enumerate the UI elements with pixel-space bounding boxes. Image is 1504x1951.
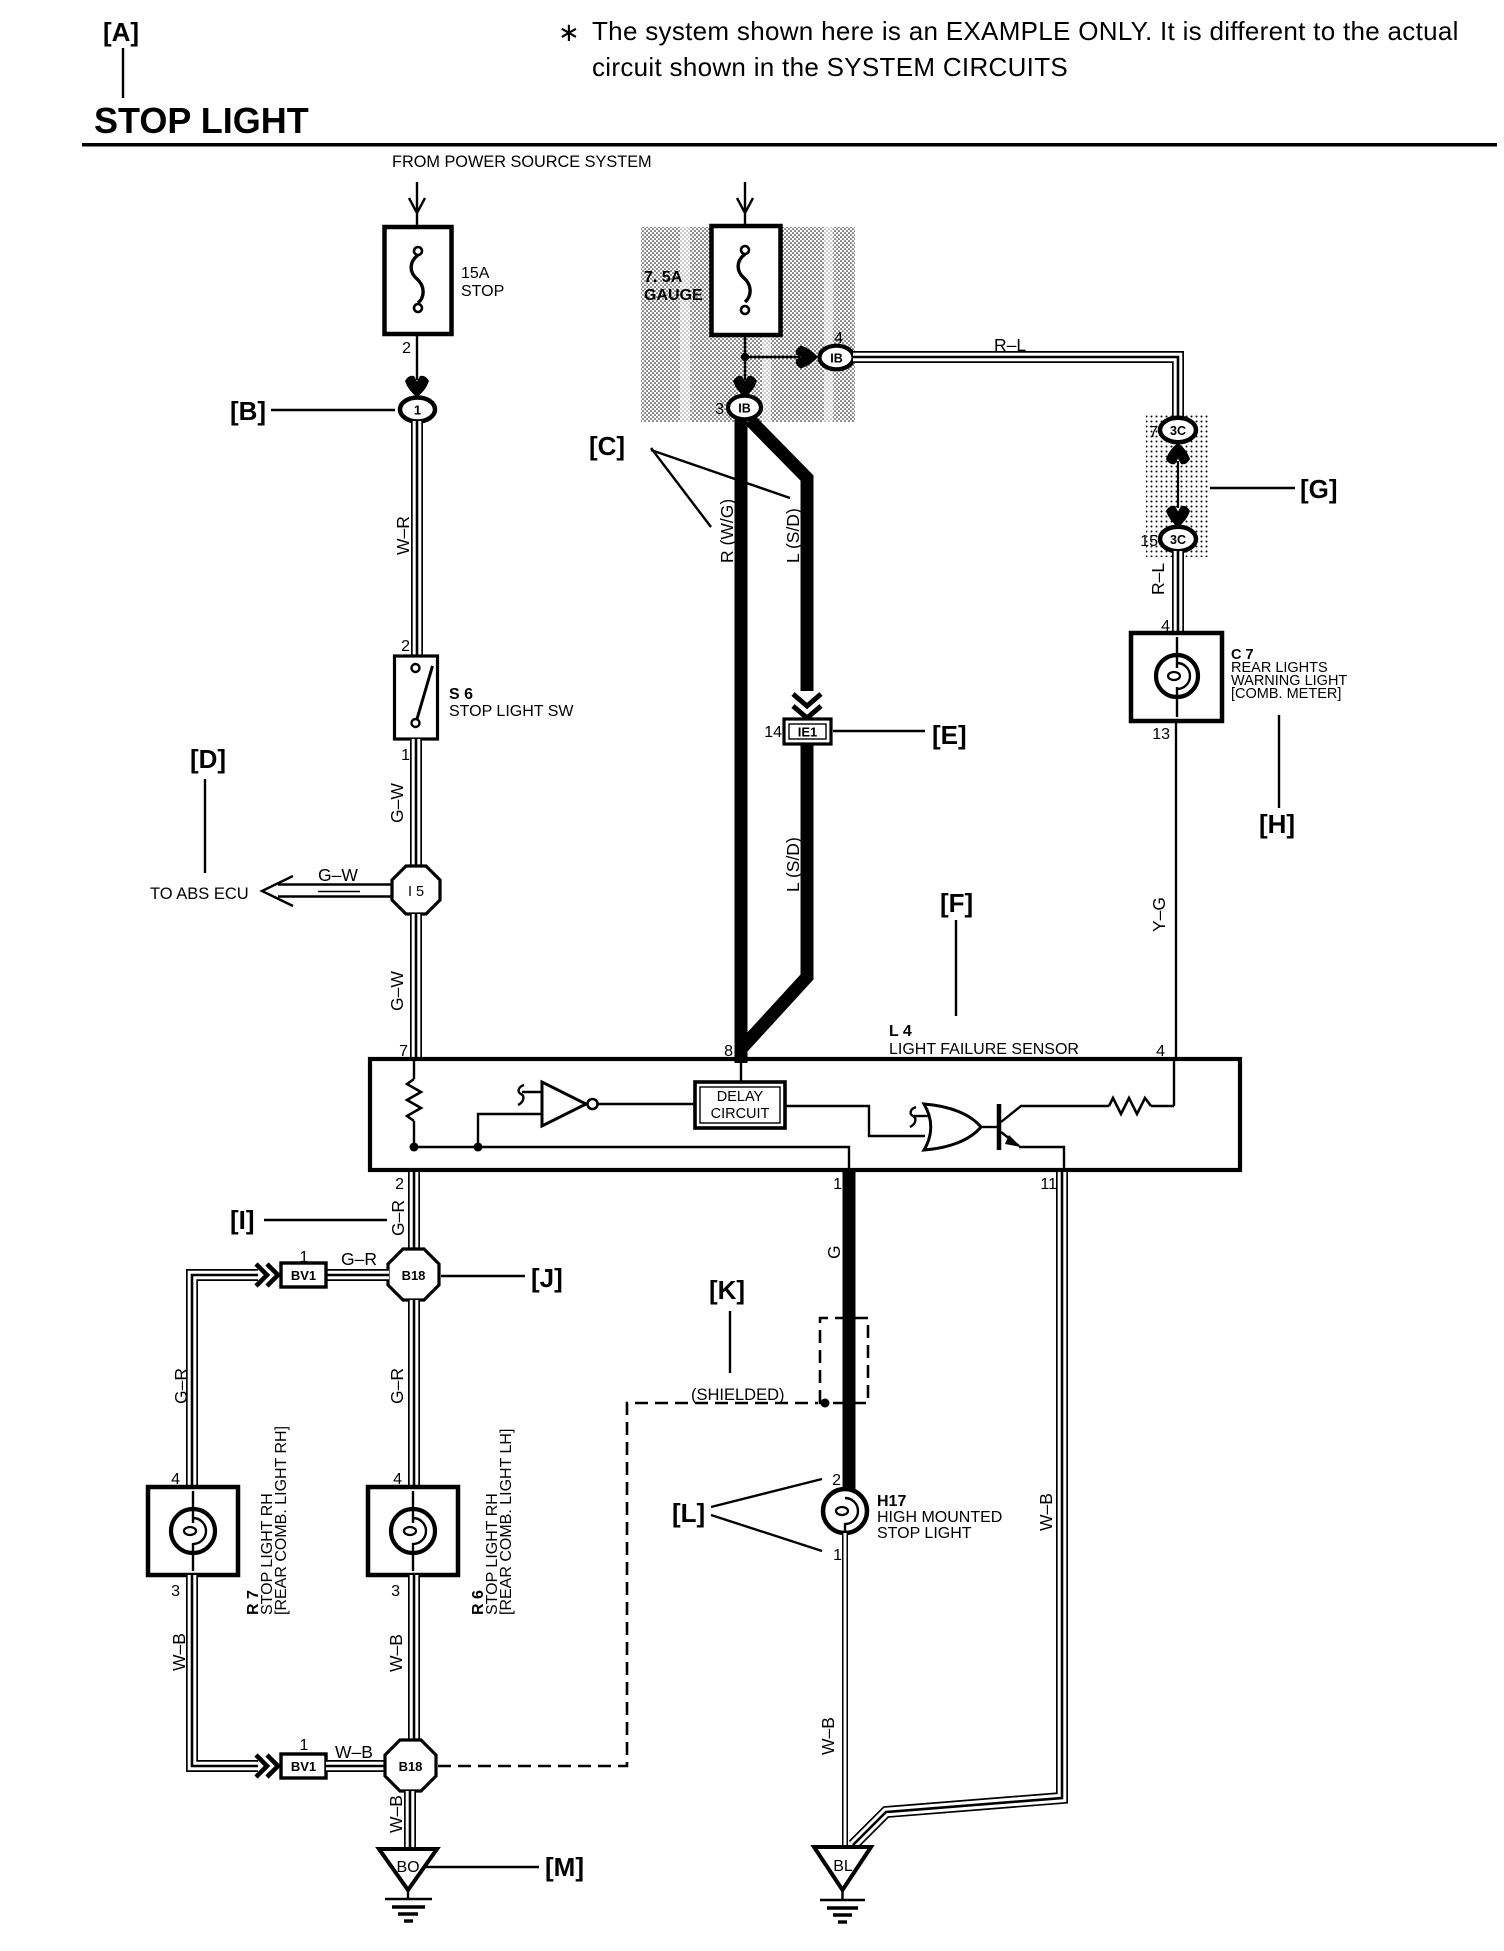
dashed shield wire from B18 lower xyxy=(438,1403,818,1766)
wire from power source to fuse 15A with arrow xyxy=(409,182,425,227)
svg-text:G–R: G–R xyxy=(171,1368,191,1404)
svg-text:[G]: [G] xyxy=(1300,474,1338,504)
label K xyxy=(709,1275,745,1373)
connector oval 3C upper xyxy=(1160,418,1196,442)
OR gate xyxy=(924,1104,981,1150)
svg-text:1: 1 xyxy=(401,747,410,764)
svg-text:R (W/G): R (W/G) xyxy=(717,499,737,563)
svg-text:L (S/D): L (S/D) xyxy=(783,837,803,892)
sensor L4 box xyxy=(370,1059,1240,1170)
svg-text:7. 5A: 7. 5A xyxy=(644,269,683,286)
svg-text:[I]: [I] xyxy=(230,1205,255,1235)
svg-text:∗: ∗ xyxy=(558,17,580,47)
fuse 15A value label xyxy=(461,265,504,300)
svg-text:[C]: [C] xyxy=(589,431,625,461)
lamp C7 name label xyxy=(1231,647,1347,702)
svg-text:[M]: [M] xyxy=(545,1852,584,1882)
svg-text:15: 15 xyxy=(1140,533,1158,550)
bottom rail wire to pin 1 xyxy=(414,1147,849,1168)
label D xyxy=(190,744,226,873)
label B xyxy=(230,396,395,426)
filled arrow down toward 3C lower xyxy=(1166,506,1190,527)
svg-text:DELAY: DELAY xyxy=(717,1089,764,1105)
junction connector B18 lower octagon xyxy=(385,1740,436,1791)
svg-text:CIRCUIT: CIRCUIT xyxy=(711,1106,770,1122)
connector oval 1 xyxy=(400,398,435,422)
svg-text:FROM POWER SOURCE SYSTEM: FROM POWER SOURCE SYSTEM xyxy=(392,153,652,171)
svg-text:circuit shown in the SYSTEM CI: circuit shown in the SYSTEM CIRCUITS xyxy=(592,52,1068,82)
ground BO xyxy=(379,1849,437,1921)
svg-text:GAUGE: GAUGE xyxy=(644,287,703,304)
sensor L4 name label xyxy=(889,1023,1079,1058)
thick wire G sensor pin1 to H17 xyxy=(843,1170,856,1490)
resistor R inside sensor xyxy=(407,1061,421,1147)
svg-text:1: 1 xyxy=(414,403,421,418)
svg-text:L (S/D): L (S/D) xyxy=(783,508,803,563)
thick wire L (S/D) upper xyxy=(750,420,807,691)
connector oval IB lower xyxy=(728,396,761,420)
label E xyxy=(833,720,967,750)
wire W-B lamp R7 to BV1 lower xyxy=(192,1575,258,1766)
wire G-W switch to junction I5 xyxy=(410,739,422,868)
svg-text:BV1: BV1 xyxy=(291,1268,316,1283)
label C xyxy=(589,431,790,527)
svg-text:B18: B18 xyxy=(399,1759,423,1774)
svg-text:1: 1 xyxy=(300,1737,309,1754)
svg-text:STOP LIGHT: STOP LIGHT xyxy=(877,1525,972,1542)
lamp R7 name label rotated xyxy=(245,1426,290,1615)
svg-text:[L]: [L] xyxy=(672,1498,705,1528)
wire G-R B18 to lamp R6 xyxy=(408,1300,420,1487)
wire resistor to pin 4 xyxy=(1173,1061,1175,1106)
svg-text:11: 11 xyxy=(1040,1176,1057,1193)
svg-text:R–L: R–L xyxy=(994,335,1026,355)
lamp R7 stop light RH xyxy=(148,1487,238,1575)
svg-text:STOP: STOP xyxy=(461,283,504,300)
svg-text:G–W: G–W xyxy=(387,783,407,823)
title underline xyxy=(82,143,1497,147)
wire from power source to gauge fuse with arrow xyxy=(737,182,753,227)
wire R-L horizontal IB to corner xyxy=(853,357,1178,419)
svg-text:W–B: W–B xyxy=(386,1634,406,1672)
fuse 7.5A value label xyxy=(644,269,703,304)
svg-text:G–W: G–W xyxy=(387,971,407,1011)
chevrons into BV1 lower xyxy=(256,1755,278,1777)
junction connector B18 upper octagon xyxy=(388,1249,439,1300)
thin wire between 3C connectors xyxy=(1177,461,1179,508)
svg-text:[J]: [J] xyxy=(531,1263,563,1293)
wire emitter to pin 11 xyxy=(1019,1147,1064,1168)
connector oval 3C lower xyxy=(1160,527,1196,551)
svg-text:STOP LIGHT: STOP LIGHT xyxy=(94,100,309,141)
svg-text:15A: 15A xyxy=(461,265,490,282)
svg-text:[E]: [E] xyxy=(932,720,967,750)
svg-text:G: G xyxy=(824,1245,844,1259)
thick wire R (W/G) xyxy=(735,419,748,1063)
svg-text:7: 7 xyxy=(1149,424,1158,441)
wire G-W I5 to sensor pin 7 xyxy=(410,914,422,1059)
svg-text:13: 13 xyxy=(1152,726,1170,743)
svg-text:BV1: BV1 xyxy=(291,1759,316,1774)
svg-text:[REAR COMB. LIGHT LH]: [REAR COMB. LIGHT LH] xyxy=(498,1429,515,1615)
switch S6 name label xyxy=(449,686,574,720)
svg-text:2: 2 xyxy=(401,638,410,655)
svg-text:W–B: W–B xyxy=(1036,1493,1056,1531)
lamp H17 name label xyxy=(877,1493,1002,1542)
svg-text:W–B: W–B xyxy=(169,1633,189,1671)
halftone patch behind 3C connectors xyxy=(1146,415,1208,557)
svg-text:[D]: [D] xyxy=(190,744,226,774)
wire sensor pin 8 to delay circuit xyxy=(740,1063,742,1082)
label M xyxy=(426,1852,584,1882)
connector IE1 xyxy=(784,719,831,744)
svg-text:Y–G: Y–G xyxy=(1149,897,1169,932)
junction node dot second xyxy=(474,1143,483,1152)
transistor Q xyxy=(981,1104,1109,1150)
label I xyxy=(230,1205,387,1235)
svg-text:BO: BO xyxy=(396,1859,419,1876)
svg-text:H17: H17 xyxy=(877,1493,906,1510)
svg-text:The system shown here is an EX: The system shown here is an EXAMPLE ONLY… xyxy=(592,16,1459,46)
svg-text:R–L: R–L xyxy=(1148,563,1168,595)
svg-text:3: 3 xyxy=(391,1583,400,1600)
svg-text:IB: IB xyxy=(738,402,751,416)
svg-text:[K]: [K] xyxy=(709,1275,745,1305)
svg-text:3C: 3C xyxy=(1170,533,1186,547)
fuse 15A STOP xyxy=(385,227,452,334)
delay circuit box xyxy=(695,1082,785,1128)
svg-text:HIGH MOUNTED: HIGH MOUNTED xyxy=(877,1509,1002,1526)
svg-text:G–W: G–W xyxy=(318,865,358,885)
svg-text:(SHIELDED): (SHIELDED) xyxy=(691,1386,785,1404)
thick wire L (S/D) lower xyxy=(741,744,807,1063)
wire W-B H17 to ground BL xyxy=(842,1533,848,1849)
svg-text:IB: IB xyxy=(830,352,843,366)
svg-text:2: 2 xyxy=(395,1176,404,1193)
svg-text:14: 14 xyxy=(764,724,782,741)
svg-text:1: 1 xyxy=(833,1547,842,1564)
svg-text:1: 1 xyxy=(833,1176,842,1193)
connector BV1 lower xyxy=(281,1754,326,1778)
svg-text:I 5: I 5 xyxy=(408,884,424,900)
wire BV1 lower to B18 lower xyxy=(326,1760,387,1772)
svg-text:LIGHT FAILURE SENSOR: LIGHT FAILURE SENSOR xyxy=(889,1041,1079,1058)
wire fuse to connector oval 1 xyxy=(416,334,418,380)
lamp C7 rear lights warning light xyxy=(1131,633,1222,721)
wire chevron to BV1 upper xyxy=(326,1269,389,1281)
svg-text:TO ABS ECU: TO ABS ECU xyxy=(150,885,249,903)
wire W-B lamp R6 to B18 lower xyxy=(408,1575,420,1742)
wire inverter to delay circuit xyxy=(598,1103,695,1105)
wire delay circuit to OR gate xyxy=(785,1106,925,1136)
note text xyxy=(592,16,1459,82)
wire junction to connector IB pin 4 xyxy=(745,356,800,358)
wire W-B B18 lower to ground BO xyxy=(404,1791,416,1849)
svg-text:[COMB. METER]: [COMB. METER] xyxy=(1231,686,1341,702)
wire R-L 3C to warning light xyxy=(1172,551,1184,633)
svg-text:[F]: [F] xyxy=(940,888,973,918)
label J xyxy=(441,1263,563,1293)
svg-text:STOP LIGHT SW: STOP LIGHT SW xyxy=(449,703,574,720)
ground BL xyxy=(814,1847,871,1922)
junction node dot left xyxy=(410,1143,419,1152)
svg-text:S 6: S 6 xyxy=(449,686,473,703)
svg-text:G–R: G–R xyxy=(387,1368,407,1404)
label L xyxy=(672,1479,822,1551)
wire W-R oval1 to switch S6 xyxy=(411,421,423,656)
lamp H17 high mounted stop light xyxy=(823,1489,867,1533)
label F xyxy=(940,888,973,1016)
svg-text:L 4: L 4 xyxy=(889,1023,912,1040)
chevron arrows on L (S/D) xyxy=(793,694,821,718)
svg-text:BL: BL xyxy=(833,1858,853,1875)
shield dashed box xyxy=(820,1318,868,1403)
fuse 7.5A GAUGE xyxy=(712,226,781,335)
svg-text:3: 3 xyxy=(715,401,724,418)
svg-text:3: 3 xyxy=(171,1583,180,1600)
wire Y-G warning light to sensor pin 4 xyxy=(1175,721,1177,1059)
wire junction to inverter input xyxy=(478,1114,542,1147)
hook symbol at OR gate input xyxy=(910,1107,930,1127)
svg-text:2: 2 xyxy=(832,1472,841,1489)
junction dot xyxy=(741,353,749,361)
chevrons into BV1 upper xyxy=(256,1264,278,1286)
svg-text:IE1: IE1 xyxy=(798,725,818,740)
resistor horizontal inside sensor xyxy=(1109,1098,1174,1114)
wire G-R sensor pin2 to B18 xyxy=(408,1172,420,1250)
svg-text:[B]: [B] xyxy=(230,396,266,426)
switch S6 stop light sw xyxy=(395,656,438,739)
svg-text:G–R: G–R xyxy=(388,1200,408,1236)
shield junction dot xyxy=(821,1399,830,1408)
svg-text:G–R: G–R xyxy=(341,1249,377,1269)
connector oval IB right xyxy=(820,346,854,370)
lamp R6 name label rotated xyxy=(470,1429,515,1615)
svg-text:[REAR COMB. LIGHT RH]: [REAR COMB. LIGHT RH] xyxy=(273,1426,290,1615)
connector BV1 upper xyxy=(281,1263,326,1287)
inverter gate xyxy=(542,1082,598,1126)
svg-text:[A]: [A] xyxy=(103,17,139,47)
svg-text:W–B: W–B xyxy=(818,1717,838,1755)
label G xyxy=(1210,474,1338,504)
svg-text:2: 2 xyxy=(402,340,411,357)
filled arrow up toward 3C upper xyxy=(1166,443,1190,464)
filled arrow down into IB lower xyxy=(733,376,757,397)
svg-text:W–B: W–B xyxy=(335,1742,373,1762)
wire W-B sensor pin11 to ground BL xyxy=(853,1172,1062,1845)
svg-text:W–R: W–R xyxy=(393,516,413,555)
filled arrow right into IB xyxy=(796,346,818,369)
filled arrow into connector 1 xyxy=(405,376,429,397)
arrow TO ABS ECU xyxy=(262,876,393,906)
wire loop to stop light RH xyxy=(192,1275,258,1487)
label A xyxy=(103,17,139,98)
junction connector I5 octagon xyxy=(392,866,440,914)
lamp R6 stop light LH xyxy=(368,1487,458,1575)
svg-text:W–B: W–B xyxy=(386,1795,406,1833)
svg-text:3C: 3C xyxy=(1170,424,1186,438)
wire gauge fuse to junction xyxy=(744,335,746,380)
label H xyxy=(1259,715,1295,839)
hook symbol at inverter input xyxy=(518,1085,542,1105)
svg-text:[H]: [H] xyxy=(1259,809,1295,839)
svg-text:B18: B18 xyxy=(402,1268,426,1283)
halftone patch behind gauge fuse xyxy=(641,227,855,422)
